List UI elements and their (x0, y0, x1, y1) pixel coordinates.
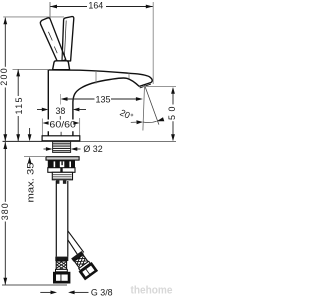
arc right arrow (157, 117, 165, 121)
dim 135 right arrow (136, 97, 143, 101)
handle left bar (40, 18, 65, 63)
vertical hose crimp (55, 257, 68, 261)
axis tick (59, 116, 61, 120)
outlet axis line (143, 86, 145, 131)
svg-text:38: 38 (55, 106, 65, 116)
dim max35 up arrow (28, 157, 32, 164)
dim d32 left arrow (46, 147, 53, 151)
svg-text:115: 115 (14, 97, 24, 114)
ext line spout top left (13, 68, 49, 70)
svg-text:Ø 32: Ø 32 (83, 144, 102, 154)
tailpiece (52, 172, 72, 180)
dim 164 line (50, 6, 153, 8)
svg-text:max. 35: max. 35 (26, 162, 36, 202)
hose diagonal edge upper (68, 231, 84, 253)
bottom reference line (2, 284, 67, 286)
dim max35 down arrow (28, 134, 32, 141)
dim 38 right arrow (73, 108, 80, 112)
spout hidden edge 1 (95, 71, 97, 84)
stream 20deg line (145, 85, 159, 124)
dim 115 bottom arrow (16, 134, 20, 141)
dim 164 left arrow (50, 5, 57, 9)
spout hidden edge 2 (128, 73, 130, 78)
dim G38 line right (74, 291, 89, 293)
dim d32 right arrow (71, 147, 78, 151)
dim 60/60 left arrow (43, 121, 49, 125)
dim 164 right arrow (146, 5, 153, 9)
vertical hose nut (53, 272, 70, 284)
dim 50 line (172, 92, 174, 136)
hose stub left (56, 180, 59, 184)
svg-text:thehome: thehome (131, 285, 173, 297)
dim 38 left stub (37, 109, 43, 111)
mounting nut (48, 160, 75, 167)
dim 380 bottom arrow (3, 278, 7, 285)
ext line handle top (3, 16, 64, 18)
svg-text:380: 380 (0, 203, 10, 220)
hose stub right (63, 180, 66, 184)
ext line 164 right (to spout tip) (152, 2, 154, 84)
diagonal hose nut (79, 262, 99, 280)
aerator line (140, 84, 151, 88)
angle arc (143, 121, 157, 122)
arc left arrow (136, 120, 143, 124)
svg-text:60/60: 60/60 (49, 119, 76, 129)
dim 115 line (17, 69, 19, 141)
ext line escutcheon right (79, 118, 81, 136)
dim G38 right arrow (68, 291, 75, 295)
diagonal hose braid (74, 255, 88, 268)
diagonal hose crimp (71, 251, 84, 262)
diagonal connector assembly (70, 250, 98, 280)
dim 50 top arrow (171, 87, 175, 94)
nut lower flange (48, 168, 75, 173)
handle right bar left edge crossing (61, 50, 63, 61)
dim 200 bottom arrow (3, 134, 7, 141)
ext line washer top (24, 156, 45, 158)
diagonal hose collar (79, 261, 90, 270)
dim 50 bottom arrow (171, 134, 175, 141)
dim 115 top arrow (16, 69, 20, 76)
dim 38 left arrow (42, 108, 49, 112)
handle left bar inner dashes (48, 32, 57, 53)
ext line spout tip right (141, 85, 176, 87)
axis tick lower (60, 132, 62, 136)
washer (46, 157, 79, 160)
vertical hose collar (56, 269, 68, 271)
ext line escutcheon left (41, 119, 43, 136)
dim 135 left arrow (61, 97, 68, 101)
dim 380 line (4, 142, 6, 285)
ext line 164 left (49, 2, 51, 21)
faucet body + spout outline (47, 70, 49, 136)
handle hub (53, 61, 70, 70)
shank threaded (53, 142, 71, 153)
hose vertical right edge (67, 181, 69, 257)
hose vertical left edge (55, 181, 57, 257)
dim 380 top arrow (3, 142, 7, 149)
dim 135 line (67, 98, 137, 100)
hose diagonal edge lower (68, 240, 78, 256)
spout top edge (48, 70, 152, 87)
dim 200 line (4, 18, 6, 142)
body right edge (73, 78, 139, 136)
svg-text:135: 135 (96, 95, 111, 105)
escutcheon plate (42, 136, 80, 141)
ext line body axis (60, 94, 62, 105)
dim 60/60 right arrow (73, 121, 79, 125)
dim G38 line left (40, 291, 51, 293)
vertical hose braid (56, 259, 66, 272)
20deg leader (131, 121, 137, 123)
dim G38 left arrow (51, 291, 58, 295)
dim 38 right stub (79, 109, 87, 111)
handle right bar inner line (64, 21, 66, 58)
svg-text:G 3/8: G 3/8 (91, 287, 113, 297)
svg-text:164: 164 (88, 1, 103, 11)
svg-text:200: 200 (0, 68, 9, 86)
countertop line (3, 140, 43, 142)
handle right bar (62, 17, 74, 61)
dim 200 top arrow (3, 18, 7, 25)
